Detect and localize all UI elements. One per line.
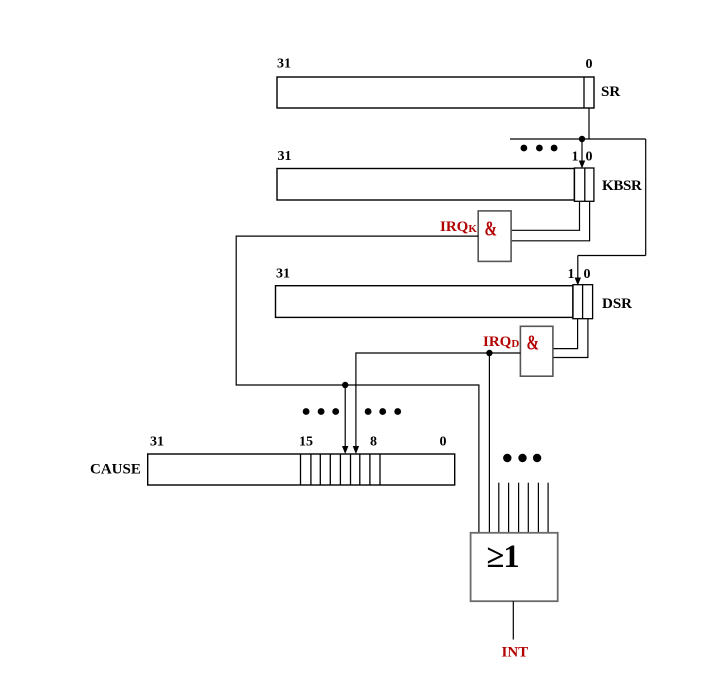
wire DSR bit1 to AND	[553, 319, 578, 349]
ellipsis (more interrupt sources)	[503, 454, 541, 462]
wire IRQD output to CAUSE	[356, 353, 521, 448]
svg-text:KBSR: KBSR	[602, 178, 642, 194]
svg-text:INT: INT	[502, 645, 529, 661]
arrow into KBSR bit 1	[579, 139, 585, 169]
ellipsis (other devices)	[521, 145, 558, 152]
register SR	[277, 77, 594, 108]
svg-text:&: &	[527, 331, 540, 355]
junction dot	[579, 136, 585, 142]
svg-text:SR: SR	[601, 84, 620, 100]
register KBSR	[277, 168, 594, 201]
junction dot IRQK branch	[342, 382, 348, 388]
or-gate U3 (>=1)	[471, 533, 558, 601]
svg-text:15: 15	[299, 435, 313, 450]
register DSR	[276, 285, 593, 319]
or-gate input stubs	[499, 483, 548, 533]
wire bus to DSR	[578, 255, 646, 257]
junction dot IRQD branch	[486, 350, 492, 356]
wire IRQK output to CAUSE and OR	[236, 236, 479, 533]
wire right vertical to DSR bus	[645, 139, 647, 256]
wire horizontal bus	[510, 138, 646, 140]
register CAUSE	[148, 454, 455, 485]
svg-text:1: 1	[572, 150, 579, 165]
wire SR bit0 down	[588, 108, 590, 139]
and-gate U2 (IRQD)	[520, 326, 553, 376]
wire KBSR bit0 to AND	[511, 201, 589, 241]
svg-text:DSR: DSR	[602, 296, 632, 312]
svg-text:0: 0	[584, 267, 591, 282]
svg-text:31: 31	[150, 435, 164, 450]
ellipsis (more cause bits left)	[303, 408, 339, 415]
svg-text:0: 0	[440, 435, 447, 450]
arrow IRQK into CAUSE	[342, 385, 348, 454]
svg-text:0: 0	[586, 57, 593, 72]
wire KBSR bit1 to AND	[511, 201, 579, 230]
svg-text:≥1: ≥1	[487, 539, 519, 575]
svg-text:1: 1	[568, 267, 575, 282]
svg-text:0: 0	[586, 150, 593, 165]
wire INT output	[512, 601, 514, 639]
svg-text:CAUSE: CAUSE	[90, 462, 141, 478]
ellipsis (more cause bits right)	[365, 408, 401, 415]
wire IRQD to OR gate	[488, 353, 490, 533]
svg-text:&: &	[485, 217, 498, 241]
arrow IRQD into CAUSE	[353, 446, 359, 454]
and-gate U1 (IRQK)	[478, 211, 511, 262]
svg-text:31: 31	[276, 267, 290, 282]
wire DSR bit0 to AND	[553, 319, 588, 358]
svg-text:31: 31	[277, 57, 291, 72]
svg-text:31: 31	[278, 149, 292, 164]
arrow into DSR bit 1	[575, 256, 581, 286]
svg-text:8: 8	[370, 435, 377, 450]
